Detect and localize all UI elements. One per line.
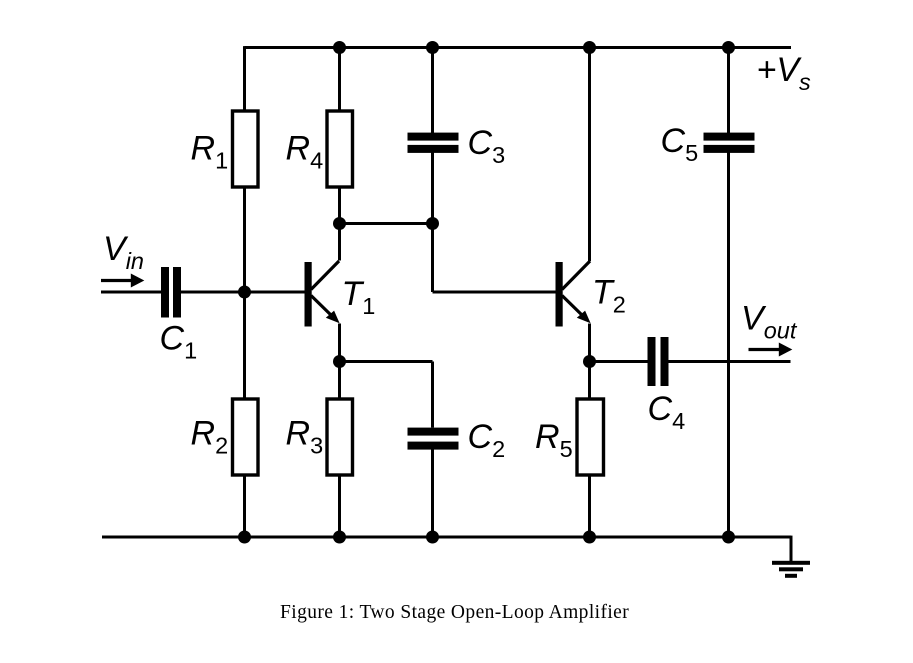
wire R1 bottom to base node: [243, 187, 246, 399]
wire C3 top lead: [431, 48, 434, 134]
node ground-R3: [333, 531, 346, 544]
wire C4 to output: [669, 360, 791, 363]
resistor R4: [327, 111, 353, 187]
ground: [772, 561, 810, 578]
wire R1 top lead: [243, 46, 246, 111]
node ground-R5: [583, 531, 596, 544]
wire T1 emitter horizontal: [340, 360, 433, 363]
capacitor C3: [408, 133, 459, 153]
capacitor C5: [704, 133, 755, 153]
node rail-C3: [426, 41, 439, 54]
wire C5 top lead: [727, 48, 730, 134]
wire R4 bottom lead: [338, 187, 341, 224]
wire ground drop: [790, 536, 793, 561]
node rail-R4: [333, 41, 346, 54]
resistor R2: [233, 399, 259, 475]
node rail-C5: [722, 41, 735, 54]
capacitor C4: [648, 337, 669, 386]
wire C5 bottom lead: [727, 153, 730, 539]
wire T1 collector vertical: [338, 224, 341, 261]
node ground-C5: [722, 531, 735, 544]
wire input left segment: [101, 291, 161, 294]
wire C2 bottom lead: [431, 450, 434, 539]
node ground-R2: [238, 531, 251, 544]
wire T2 emitter vertical to R5: [588, 324, 591, 400]
wire emitter to C2 vertical: [431, 362, 434, 428]
wire T2 collector vertical: [588, 48, 591, 262]
node T1 base junction: [238, 286, 251, 299]
node rail-T2 collector: [583, 41, 596, 54]
wire T1 collector to C3 node: [340, 222, 433, 225]
svg-text:Figure 1: Two Stage Open-Loop: Figure 1: Two Stage Open-Loop Amplifier: [280, 602, 629, 623]
wire node to T2 base vertical: [431, 224, 434, 293]
wire T1 emitter vertical to R3: [338, 324, 341, 400]
node ground-C2: [426, 531, 439, 544]
Vout arrow: [749, 343, 793, 357]
transistor T2: [556, 261, 591, 327]
node C3-T2 base junction: [426, 217, 439, 230]
resistor R1: [233, 111, 259, 187]
wire top rail +Vs: [245, 46, 792, 49]
wire T2 emitter to C4: [590, 360, 649, 363]
wire R3 bottom lead: [338, 475, 341, 538]
wire C1 to T1 base: [181, 291, 305, 294]
wire R5 bottom lead: [588, 475, 591, 538]
Vin arrow: [101, 274, 144, 288]
wire R2 bottom lead: [243, 475, 246, 538]
wire R4 top lead: [338, 48, 341, 112]
resistor R3: [327, 399, 353, 475]
transistor T1: [305, 261, 340, 327]
wire bottom ground rail: [102, 536, 791, 539]
node T1 emitter junction: [333, 355, 346, 368]
wire C3 bottom lead: [431, 153, 434, 224]
wire to T2 base: [433, 291, 557, 294]
capacitor C1: [161, 267, 181, 318]
resistor R5: [577, 399, 604, 475]
node T1 collector junction: [333, 217, 346, 230]
capacitor C2: [408, 428, 459, 450]
node T2 emitter junction: [583, 355, 596, 368]
